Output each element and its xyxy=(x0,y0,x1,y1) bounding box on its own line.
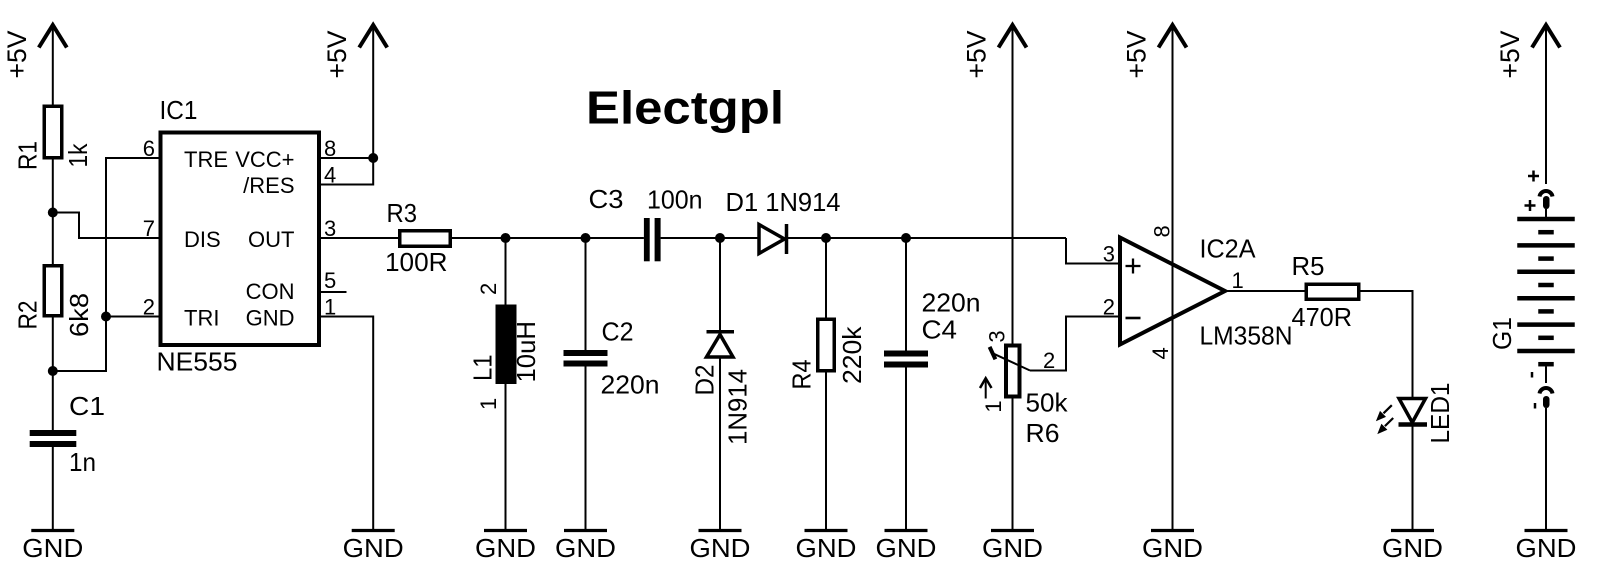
svg-text:TRI: TRI xyxy=(184,305,219,330)
svg-text:4: 4 xyxy=(1148,347,1173,359)
diode D1 cathode bar xyxy=(785,224,789,254)
node junction TRI net xyxy=(101,312,111,322)
capacitor C3 left plate xyxy=(644,218,650,261)
potentiometer R6 wiper diagonal xyxy=(993,353,1031,370)
wire C3 to D1 xyxy=(661,237,759,239)
battery G1 minus terminal pin xyxy=(1543,396,1550,408)
wire R1 to R2 xyxy=(52,160,54,265)
battery G1 cell 4 short plate xyxy=(1538,309,1554,314)
wire D1 to op-amp input net xyxy=(788,237,1066,239)
ground symbol (D2) xyxy=(699,529,742,532)
wire R4 to ground xyxy=(825,372,827,529)
wire tap to D2 cathode xyxy=(719,238,721,332)
op-amp plus input mark xyxy=(1126,265,1141,267)
op-amp minus input mark xyxy=(1126,317,1141,320)
svg-text:GND: GND xyxy=(876,533,937,563)
svg-text:6: 6 xyxy=(143,136,155,161)
svg-text:2: 2 xyxy=(476,283,501,295)
svg-text:220n: 220n xyxy=(922,288,981,318)
svg-text:C4: C4 xyxy=(922,315,958,345)
wire op-amp power rail pin 8 to pin 4 to ground xyxy=(1172,27,1174,529)
svg-text:7: 7 xyxy=(143,216,155,241)
wire plus terminal to first plate xyxy=(1545,209,1547,219)
wire +5V arrow to junction xyxy=(372,27,374,158)
svg-text:220k: 220k xyxy=(837,325,867,384)
svg-text:LM358N: LM358N xyxy=(1200,321,1293,351)
wire tap to C4 xyxy=(905,238,907,351)
svg-text:IC2A: IC2A xyxy=(1200,234,1257,264)
wire D2 to ground xyxy=(719,357,721,529)
ground symbol (LED1) xyxy=(1391,529,1434,532)
wire pin 4 to +5V rail xyxy=(321,158,373,185)
svg-text:C3: C3 xyxy=(589,184,624,214)
wire battery to ground xyxy=(1545,408,1547,529)
LED LED1 emission arrow 2 shaft xyxy=(1385,418,1393,426)
ground symbol (battery) xyxy=(1525,529,1568,532)
svg-text:NE555: NE555 xyxy=(157,347,238,377)
wire last plate to minus terminal xyxy=(1545,366,1547,383)
battery G1 cell 5 long plate xyxy=(1517,322,1575,327)
svg-text:+5V: +5V xyxy=(962,31,992,79)
node junction +5V rail xyxy=(368,153,378,163)
svg-text:1n: 1n xyxy=(69,447,96,477)
ground symbol (C1) xyxy=(31,529,74,532)
wire op-amp output to R5 xyxy=(1225,290,1305,292)
battery G1 cell 1 short plate xyxy=(1538,230,1554,235)
svg-text:6k8: 6k8 xyxy=(64,293,94,337)
capacitor C4 bottom plate xyxy=(884,362,928,368)
wire tap to C2 xyxy=(585,238,587,350)
battery G1 plus terminal clip arc xyxy=(1540,191,1553,196)
ground symbol (R4) xyxy=(805,529,848,532)
svg-text:VCC+: VCC+ xyxy=(235,147,294,172)
svg-text:R4: R4 xyxy=(787,360,817,390)
svg-text:TRE: TRE xyxy=(184,147,228,172)
power +5V supply arrow (op-amp rail) xyxy=(1159,25,1187,48)
svg-text:GND: GND xyxy=(246,305,295,330)
svg-text:GND: GND xyxy=(1142,533,1203,563)
LED LED1 triangle xyxy=(1399,399,1426,423)
battery G1 plus terminal pin xyxy=(1543,196,1550,209)
battery G1 cell 3 short plate xyxy=(1538,283,1554,288)
svg-text:5: 5 xyxy=(324,268,336,293)
wire R5 to LED1 xyxy=(1361,291,1413,399)
power +5V supply arrow (R6 rail) xyxy=(999,25,1027,48)
svg-text:+5V: +5V xyxy=(322,31,352,79)
diode D2 triangle xyxy=(707,335,734,358)
svg-text:/RES: /RES xyxy=(243,173,294,198)
capacitor C3 right plate xyxy=(655,218,661,261)
svg-text:C1: C1 xyxy=(69,391,105,421)
svg-text:LED1: LED1 xyxy=(1425,383,1455,444)
svg-text:GND: GND xyxy=(796,533,857,563)
wire tap to L1 xyxy=(505,238,507,305)
resistor R4 body xyxy=(818,319,835,371)
battery G1 cell 4 long plate xyxy=(1517,296,1575,301)
potentiometer R6 adjust arrow head xyxy=(980,378,992,388)
svg-text:GND: GND xyxy=(343,533,404,563)
svg-text:100R: 100R xyxy=(385,247,448,277)
wire C2 to ground xyxy=(585,367,587,530)
svg-text:50k: 50k xyxy=(1026,388,1069,418)
svg-text:GND: GND xyxy=(1382,533,1443,563)
node junction C4 tap xyxy=(901,233,911,243)
node junction C2 tap xyxy=(581,233,591,243)
svg-text:R6: R6 xyxy=(1026,418,1060,448)
LED LED1 emission arrow 2 head xyxy=(1377,424,1387,434)
svg-text:GND: GND xyxy=(690,533,751,563)
svg-text:R5: R5 xyxy=(1292,251,1325,281)
svg-text:GND: GND xyxy=(22,533,83,563)
svg-text:R2: R2 xyxy=(13,301,43,330)
svg-text:1N914: 1N914 xyxy=(723,369,753,445)
resistor R2 body xyxy=(44,266,62,316)
potentiometer R6 body xyxy=(1006,346,1020,397)
svg-text:L1: L1 xyxy=(468,355,498,382)
battery G1 plus sign (outer) xyxy=(1528,175,1539,178)
battery G1 cell 1 long plate xyxy=(1517,217,1575,222)
svg-text:2: 2 xyxy=(1103,295,1115,320)
svg-text:1: 1 xyxy=(981,400,1006,412)
battery G1 cell 3 long plate xyxy=(1517,270,1575,275)
op-amp plus input mark vertical xyxy=(1132,259,1134,274)
node junction L1 tap xyxy=(501,233,511,243)
power +5V supply arrow (R1 rail) xyxy=(39,25,67,48)
diode D2 cathode bar xyxy=(707,330,735,334)
svg-text:1: 1 xyxy=(476,398,501,410)
svg-text:DIS: DIS xyxy=(184,227,221,252)
svg-text:3: 3 xyxy=(984,330,1009,342)
battery G1 cell 6 long plate xyxy=(1517,349,1575,354)
node junction D2 tap xyxy=(715,233,725,243)
resistor R5 body xyxy=(1306,284,1359,299)
svg-text:D1 1N914: D1 1N914 xyxy=(726,187,841,217)
wire LED1 to ground xyxy=(1412,426,1414,529)
battery G1 minus terminal clip arc xyxy=(1540,388,1553,393)
svg-text:GND: GND xyxy=(1516,533,1577,563)
svg-text:G1: G1 xyxy=(1487,317,1517,350)
ground symbol (R6) xyxy=(991,529,1034,532)
ground symbol (op-amp) xyxy=(1151,529,1194,532)
node junction R1/R2 xyxy=(48,208,58,218)
resistor R1 body xyxy=(44,106,62,158)
inductor L1 body xyxy=(496,305,517,385)
svg-text:GND: GND xyxy=(475,533,536,563)
wire OUT pin 3 to R3 xyxy=(321,237,398,239)
svg-text:1k: 1k xyxy=(63,143,93,168)
ground symbol (C2) xyxy=(564,529,607,532)
svg-text:Electgpl: Electgpl xyxy=(586,82,784,134)
svg-text:R3: R3 xyxy=(387,198,418,228)
wire junction to TRI pin 2 xyxy=(106,316,159,318)
svg-text:10uH: 10uH xyxy=(511,321,541,383)
IC U1 NE555 timer body xyxy=(161,133,320,346)
node junction R2/C1 xyxy=(48,366,58,376)
svg-text:2: 2 xyxy=(143,295,155,320)
svg-text:OUT: OUT xyxy=(248,227,294,252)
svg-text:GND: GND xyxy=(982,533,1043,563)
node junction R4 tap xyxy=(821,233,831,243)
wire R6 wiper to op-amp pin 2 xyxy=(1030,317,1118,371)
ground symbol (555 pin 1) xyxy=(352,529,395,532)
wire tap to R4 xyxy=(825,238,827,318)
battery G1 minus sign (inner) xyxy=(1534,403,1537,409)
svg-text:+5V: +5V xyxy=(2,31,32,79)
svg-text:2: 2 xyxy=(1043,348,1055,373)
wire +5V to battery + terminal xyxy=(1545,27,1547,184)
power +5V supply arrow (555 rail) xyxy=(359,25,387,48)
ground symbol (L1) xyxy=(484,529,527,532)
resistor R3 body xyxy=(400,231,451,247)
svg-text:+5V: +5V xyxy=(1122,31,1152,79)
wire R2 to C1 xyxy=(52,318,54,431)
battery G1 cell 5 short plate xyxy=(1538,336,1554,341)
svg-text:470R: 470R xyxy=(1292,302,1353,332)
wire L1 to ground xyxy=(505,384,507,529)
capacitor C1 top plate xyxy=(30,430,77,436)
wire pin 5 stub (CON, n.c.) xyxy=(321,291,347,293)
capacitor C2 top plate xyxy=(564,350,608,356)
wire pin 8 to +5V rail xyxy=(321,157,373,159)
potentiometer R6 adjust arrow shaft xyxy=(985,380,987,399)
wire R6 to ground xyxy=(1012,399,1014,530)
LED LED1 emission arrow 1 shaft xyxy=(1384,405,1392,413)
svg-text:R1: R1 xyxy=(13,141,43,170)
svg-text:1: 1 xyxy=(1232,268,1244,293)
svg-text:8: 8 xyxy=(1150,225,1175,237)
wire +5V to R1 xyxy=(52,27,54,105)
svg-text:IC1: IC1 xyxy=(160,95,198,125)
wire junction to DIS pin 7 xyxy=(53,213,159,239)
svg-text:D2: D2 xyxy=(690,365,720,396)
battery G1 plus sign (inner) xyxy=(1525,204,1536,207)
svg-text:GND: GND xyxy=(555,533,616,563)
power +5V supply arrow (battery rail) xyxy=(1532,25,1560,48)
wire +5V to R6 top xyxy=(1012,27,1014,344)
svg-text:220n: 220n xyxy=(601,370,660,400)
wire R3 to C3 xyxy=(452,237,644,239)
capacitor C2 bottom plate xyxy=(564,361,608,367)
svg-text:CON: CON xyxy=(246,279,295,304)
battery G1 cell 6 short plate xyxy=(1538,362,1554,367)
wire net to op-amp pin 3 xyxy=(1066,238,1118,264)
diode D1 triangle xyxy=(759,225,785,254)
capacitor C1 bottom plate xyxy=(30,441,77,447)
svg-text:3: 3 xyxy=(1103,242,1115,267)
op-amp IC2A triangle xyxy=(1120,238,1225,345)
LED LED1 emission arrow 1 head xyxy=(1376,411,1386,421)
svg-text:100n: 100n xyxy=(647,185,703,215)
wire pin 1 to ground xyxy=(321,317,373,530)
potentiometer R6 wiper end bar xyxy=(990,347,996,359)
LED LED1 cathode bar xyxy=(1399,422,1428,427)
battery G1 cell 2 short plate xyxy=(1538,256,1554,261)
svg-text:C2: C2 xyxy=(602,317,634,347)
wire junction to TRE pin 6 xyxy=(53,158,159,371)
wire C4 to ground xyxy=(905,368,907,530)
ground symbol (C4) xyxy=(885,529,928,532)
svg-text:+5V: +5V xyxy=(1495,31,1525,79)
battery G1 minus sign (outer) xyxy=(1531,372,1534,378)
wire C1 to ground xyxy=(52,447,54,529)
capacitor C4 top plate xyxy=(884,351,928,357)
battery G1 cell 2 long plate xyxy=(1517,243,1575,248)
